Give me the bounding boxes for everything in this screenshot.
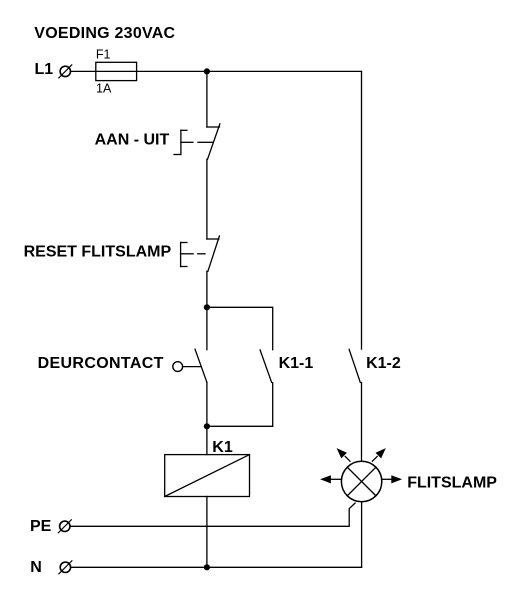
- wire node A down to switch AAN-UIT: [206, 71, 208, 127]
- fuse F1: [96, 62, 137, 80]
- svg-text:K1-1: K1-1: [279, 355, 314, 372]
- svg-text:RESET FLITSLAMP: RESET FLITSLAMP: [24, 243, 172, 260]
- node D junction dot on N rail: [204, 564, 210, 570]
- svg-text:K1-2: K1-2: [366, 355, 401, 372]
- switch S2 RESET actuator: [181, 243, 205, 267]
- switch S1 AAN-UIT contact: [207, 124, 220, 160]
- wire DEURCONTACT to node C: [206, 383, 208, 455]
- svg-text:DEURCONTACT: DEURCONTACT: [38, 355, 164, 372]
- node A junction dot: [204, 68, 210, 74]
- wire coil K1 to N rail: [206, 497, 208, 568]
- svg-text:F1: F1: [96, 47, 111, 61]
- wire K1-1 branch bottom to node C: [207, 383, 273, 427]
- switch DEURCONTACT contact blade: [195, 349, 207, 382]
- svg-text:VOEDING 230VAC: VOEDING 230VAC: [34, 25, 175, 42]
- wire right branch down to contact K1-2: [361, 71, 363, 349]
- wire node A to right branch (top rail right): [207, 70, 362, 72]
- wire L1 terminal to node A (top rail, passes through fuse): [71, 70, 207, 72]
- relay coil K1: [165, 455, 250, 497]
- lamp flash arrow east: [382, 475, 402, 483]
- wire PE rail to lamp housing: [71, 503, 355, 526]
- node C junction dot: [204, 423, 210, 429]
- svg-text:K1: K1: [212, 439, 233, 456]
- switch DEURCONTACT actuator: [173, 362, 201, 372]
- wire K1-2 to lamp: [361, 383, 363, 462]
- terminal N: [59, 561, 72, 574]
- terminal L1: [59, 65, 72, 78]
- svg-text:L1: L1: [35, 61, 54, 78]
- svg-text:PE: PE: [30, 518, 52, 535]
- node B junction dot: [204, 304, 210, 310]
- lamp flash arrow northwest: [337, 448, 350, 461]
- wire RESET to node B: [206, 271, 208, 349]
- svg-text:N: N: [30, 559, 42, 576]
- contact K1-1 blade: [260, 350, 272, 382]
- svg-text:AAN - UIT: AAN - UIT: [95, 132, 170, 149]
- wire N rail: [71, 566, 361, 568]
- contact K1-2 blade: [349, 349, 360, 382]
- lamp flash arrow west: [320, 475, 341, 483]
- wire lamp bottom to N rail: [361, 502, 363, 568]
- wire node B to K1-1 branch (top): [207, 307, 273, 349]
- svg-text:FLITSLAMP: FLITSLAMP: [407, 474, 497, 491]
- wire AAN-UIT to RESET switch: [206, 159, 208, 239]
- lamp flash arrow northeast: [372, 448, 385, 461]
- svg-text:1A: 1A: [96, 81, 112, 95]
- switch S2 RESET contact: [207, 236, 220, 271]
- lamp FLITSLAMP body: [341, 461, 381, 501]
- switch S1 AAN-UIT actuator: [174, 130, 212, 154]
- terminal PE: [58, 520, 71, 533]
